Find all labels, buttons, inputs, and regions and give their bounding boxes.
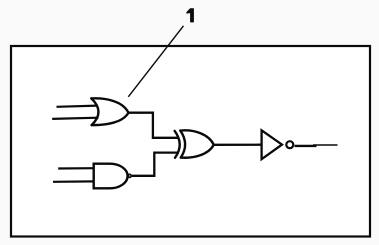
OR gate U1	[91, 98, 128, 125]
wire OR input A	[57, 106, 98, 107]
wire OR output to XOR top input	[128, 113, 178, 138]
wire inverter output segment 1	[295, 145, 317, 147]
schematic frame box	[11, 46, 370, 237]
wire NAND input B	[53, 180, 95, 183]
wire OR input B	[52, 118, 98, 119]
callout label 1	[186, 8, 194, 22]
wire XOR output to inverter input	[214, 144, 262, 146]
NAND output bubble	[128, 174, 131, 177]
NAND gate U2	[94, 164, 128, 189]
wire NAND input A	[58, 167, 94, 170]
XOR gate U3	[175, 130, 214, 157]
wire inverter output segment 2	[313, 144, 338, 146]
wire NAND output to XOR bottom input	[132, 153, 179, 176]
inverter U4 triangle	[262, 130, 282, 159]
leader line to OR gate	[128, 26, 183, 97]
inverter output bubble	[286, 141, 293, 148]
